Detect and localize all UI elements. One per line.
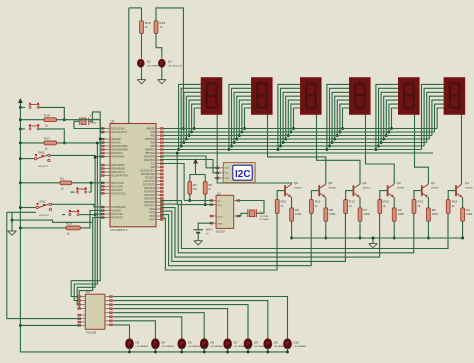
svg-text:Q4: Q4 — [362, 181, 366, 185]
junction emitter rail — [324, 237, 327, 240]
svg-text:SW2: SW2 — [38, 151, 45, 155]
wire LED cathode to rail — [247, 348, 249, 352]
wire button G left stub — [71, 191, 75, 193]
junction LED on rail — [180, 350, 183, 353]
wire bus line 1 — [160, 128, 437, 130]
svg-text:SCL: SCL — [151, 164, 156, 166]
wire DISP3 common to Q4 collector — [317, 115, 361, 185]
wire SCL net to U2 — [184, 200, 213, 202]
svg-text:100R: 100R — [329, 212, 335, 216]
wire U1 to base resistor — [160, 214, 311, 266]
svg-text:R20: R20 — [66, 222, 72, 226]
svg-text:R19: R19 — [159, 21, 165, 25]
LED D9 — [264, 339, 287, 349]
svg-text:MCLR/VPP/THV: MCLR/VPP/THV — [111, 176, 128, 178]
svg-text:100R: 100R — [466, 212, 472, 216]
wire SW2 output — [50, 155, 95, 157]
resistor R6 — [392, 208, 404, 222]
svg-text:RA4/T0CKI: RA4/T0CKI — [111, 152, 123, 155]
svg-text:SW-SPDT: SW-SPDT — [38, 166, 49, 168]
wire U1 to base resistor — [160, 208, 379, 258]
wire R6 to rail — [393, 221, 395, 238]
junction R1 net — [90, 181, 93, 184]
wire R9 to rail — [291, 221, 293, 238]
wire segment bus to DISP2 — [239, 100, 251, 135]
junction bus tap DISP4 — [338, 131, 341, 134]
wire X1 to OSC1 — [74, 121, 104, 128]
resistor R9 — [290, 208, 302, 222]
wire segment bus to DISP6 — [422, 84, 444, 149]
LED D2 — [158, 59, 182, 67]
wire SCL net to U1 — [160, 164, 184, 201]
wire Q6 base — [277, 191, 284, 200]
wire segment bus to DISP5 — [386, 100, 398, 135]
junction bus tap DISP4 — [333, 138, 336, 141]
wire segment bus to DISP4 — [340, 104, 349, 132]
wire Q1 base — [448, 191, 455, 200]
junction bus tap DISP1 — [193, 127, 196, 130]
wire R3 bottom — [189, 194, 191, 200]
wire rail to button A — [20, 106, 25, 108]
wire bus line 8 — [160, 152, 433, 154]
wire U1 to U3 select — [71, 120, 100, 297]
wire segment bus to DISP3 — [288, 100, 300, 135]
wire SW1 output to U1 — [52, 204, 105, 207]
wire segment bus to DISP6 — [432, 100, 444, 135]
svg-text:RB0/INT: RB0/INT — [146, 129, 155, 131]
wire U1 to base resistor — [160, 204, 413, 253]
svg-text:D5: D5 — [188, 340, 192, 344]
ground D1 — [137, 80, 146, 84]
svg-text:PSP4: PSP4 — [149, 209, 156, 211]
wire segment bus to DISP5 — [389, 104, 398, 132]
svg-text:RD0/PSP0: RD0/PSP0 — [144, 157, 156, 159]
wire R2 bottom — [204, 194, 206, 204]
wire segment bus to DISP3 — [294, 108, 301, 129]
svg-text:PSP6: PSP6 — [149, 216, 156, 218]
resistor R4 — [461, 208, 473, 222]
svg-text:RC6/TX/CK: RC6/TX/CK — [143, 181, 155, 183]
svg-text:2N3906: 2N3906 — [465, 187, 473, 189]
svg-text:U2: U2 — [217, 191, 221, 195]
push button A — [29, 102, 40, 108]
LED D10 — [284, 339, 307, 349]
junction bus tap DISP3 — [287, 134, 290, 137]
svg-text:D2: D2 — [168, 60, 172, 64]
LED D3 — [126, 339, 149, 349]
svg-text:R12: R12 — [349, 200, 355, 204]
resistor R19 — [154, 21, 165, 34]
svg-text:R13: R13 — [383, 200, 389, 204]
wire U3 output to LED D3 — [113, 325, 129, 339]
wire U3 output to LED D7 — [113, 309, 228, 339]
wire LED cathode to rail — [267, 348, 269, 352]
svg-text:R15: R15 — [452, 200, 458, 204]
wire DISP5 common to Q2 collector — [415, 115, 429, 185]
wire U3 output to LED D6 — [113, 313, 204, 339]
svg-text:R11: R11 — [315, 200, 321, 204]
svg-text:Q6: Q6 — [294, 181, 298, 185]
wire segment bus to DISP2 — [245, 108, 252, 129]
wire segment bus to DISP5 — [379, 88, 399, 146]
U3 left pins — [78, 296, 86, 327]
wire button H left stub — [62, 214, 65, 216]
junction bus tap DISP5 — [382, 138, 385, 141]
svg-text:R14: R14 — [417, 200, 423, 204]
wire segment bus to DISP6 — [429, 96, 444, 139]
svg-text:100R: 100R — [295, 212, 301, 216]
ground D2 — [158, 80, 167, 84]
wire LED cathode to rail — [287, 348, 289, 352]
svg-text:2N3906: 2N3906 — [431, 187, 439, 189]
junction emitter rail — [359, 237, 362, 240]
wire segment bus to DISP3 — [286, 96, 301, 139]
junction bus tap DISP1 — [188, 134, 191, 137]
wire rail to ground — [372, 238, 374, 244]
wire segment bus to DISP1 — [192, 104, 201, 132]
wire R18 to D1 — [141, 34, 143, 59]
junction bus tap DISP5 — [390, 127, 393, 130]
resistor R8 — [324, 208, 336, 222]
wire crystal to U2 X2 — [237, 201, 264, 214]
microcontroller U1 PIC16F877A body — [110, 120, 156, 233]
svg-text:R10: R10 — [281, 200, 287, 204]
junction LED on rail — [266, 350, 269, 353]
svg-text:Q5: Q5 — [328, 181, 332, 185]
junction bus tap DISP5 — [377, 145, 380, 148]
junction bus tap DISP1 — [180, 145, 183, 148]
wire rail to SW1 — [20, 207, 36, 209]
svg-text:RB3/PGM: RB3/PGM — [145, 139, 155, 141]
wire R7 to rail — [359, 221, 361, 238]
wire segment bus to DISP3 — [281, 88, 301, 146]
junction rail row B — [19, 118, 22, 121]
wire segment bus to DISP6 — [437, 108, 444, 129]
svg-text:LED-AMBER: LED-AMBER — [188, 345, 201, 348]
svg-text:D3: D3 — [136, 340, 140, 344]
wire rail to R1 — [20, 182, 60, 184]
wire vertical rail to U1 top — [128, 8, 130, 124]
svg-text:R7: R7 — [363, 208, 367, 212]
crystal X1 — [79, 114, 100, 126]
push button C — [29, 124, 40, 130]
svg-text:RA3/AN3/VREF+: RA3/AN3/VREF+ — [111, 149, 129, 152]
push button H — [69, 210, 80, 216]
resistor R1 — [60, 176, 72, 190]
wire rail to button C — [20, 128, 25, 130]
LED D1 — [137, 59, 160, 67]
svg-text:RA1/AN1: RA1/AN1 — [111, 142, 121, 145]
svg-text:2N3906: 2N3906 — [328, 187, 336, 189]
svg-text:LED-AMBER: LED-AMBER — [161, 345, 174, 348]
wire segment bus to DISP1 — [181, 88, 201, 146]
wire segment bus to DISP1 — [179, 84, 201, 149]
junction bus tap DISP2 — [240, 131, 243, 134]
svg-text:RD3/PSP3: RD3/PSP3 — [144, 192, 156, 194]
wire U2 X1 to crystal — [237, 213, 248, 216]
junction bus tap DISP2 — [238, 134, 241, 137]
svg-text:R3: R3 — [193, 183, 197, 187]
resistor R15 — [446, 200, 457, 214]
wire U1 to base resistor — [160, 201, 448, 249]
svg-text:RC7/RX/DT: RC7/RX/DT — [111, 218, 124, 220]
wire U1 SDA to I2C — [160, 160, 219, 173]
wire U3 output to LED D8 — [113, 305, 248, 339]
svg-text:R1: R1 — [60, 176, 64, 180]
svg-text:RC7/RX/DT: RC7/RX/DT — [143, 185, 156, 187]
junction bus tap DISP1 — [185, 138, 188, 141]
svg-text:Q2: Q2 — [431, 181, 435, 185]
svg-text:SDA: SDA — [217, 204, 222, 207]
svg-text:RC3/SCK/SCL: RC3/SCK/SCL — [111, 193, 127, 195]
junction LED on rail — [286, 350, 289, 353]
junction rail SW1 — [19, 206, 22, 209]
wire I2C trigger stub — [215, 177, 220, 179]
junction bus tap DISP3 — [276, 148, 279, 151]
svg-text:RC2/CCP1: RC2/CCP1 — [111, 190, 123, 192]
svg-text:D7: D7 — [234, 340, 238, 344]
svg-text:RE1/AN6/WR: RE1/AN6/WR — [111, 168, 125, 171]
svg-text:RD2/PSP2: RD2/PSP2 — [144, 188, 156, 190]
svg-text:PSP7: PSP7 — [149, 220, 156, 222]
svg-text:D9: D9 — [274, 340, 278, 344]
wire to R3 top — [189, 175, 191, 182]
wire DISP4 common to Q3 collector — [366, 115, 395, 185]
wire segment bus to DISP2 — [237, 96, 252, 139]
wire segment bus to DISP6 — [435, 104, 444, 132]
svg-text:RC6/TX/CK: RC6/TX/CK — [111, 214, 123, 216]
junction bus tap DISP1 — [182, 141, 185, 144]
svg-text:RE0/AN5/RD: RE0/AN5/RD — [111, 164, 125, 167]
svg-text:D8: D8 — [254, 340, 258, 344]
wire R17 to U1 — [57, 142, 98, 144]
junction ground rail — [11, 219, 14, 222]
svg-text:Q1: Q1 — [465, 181, 469, 185]
battery BAT1 — [193, 228, 213, 236]
junction R19 net on bus — [182, 127, 185, 130]
IC U3 74LS138 body — [85, 290, 105, 334]
wire R19 to D2 — [156, 34, 162, 59]
junction U1 pin RA1 — [96, 141, 99, 144]
push button G — [76, 187, 87, 193]
7-segment display DISP1 — [201, 78, 222, 115]
wire bus line 2 — [160, 131, 434, 133]
svg-text:CRYSTAL: CRYSTAL — [260, 215, 270, 218]
svg-text:RB2: RB2 — [151, 136, 156, 138]
wire pullup top rail — [190, 174, 205, 176]
wire button G to branch — [89, 191, 92, 193]
wire button A output — [39, 107, 65, 119]
wire LED cathode to rail — [154, 348, 156, 352]
resistor R11 — [310, 200, 321, 214]
junction SW2 net — [94, 156, 97, 159]
junction bus tap DISP3 — [282, 141, 285, 144]
LED D5 — [178, 339, 201, 349]
svg-text:PSP5: PSP5 — [149, 213, 156, 215]
ground emitter rail — [369, 244, 378, 248]
wire rail to R20 — [20, 227, 66, 229]
wire bottom ground rail — [20, 351, 287, 353]
junction button C to R17 net — [63, 141, 66, 144]
wire Q3 emitter — [393, 198, 395, 208]
wire R19 top to bus — [156, 8, 183, 129]
wire U3 output to LED D4 — [113, 321, 155, 339]
wire DISP1 common to Q6 collector — [217, 115, 291, 185]
junction R2 SDA net — [204, 203, 207, 206]
svg-text:OSC2/CLKOUT: OSC2/CLKOUT — [111, 132, 128, 134]
junction rail to U3 — [19, 324, 22, 327]
wire segment bus to DISP6 — [427, 92, 444, 142]
junction bus tap DISP5 — [380, 141, 383, 144]
svg-text:74LS138: 74LS138 — [86, 331, 97, 335]
wire segment bus to DISP2 — [234, 92, 251, 142]
7-segment display DISP6 — [444, 78, 465, 115]
I2C debugger pins — [216, 167, 223, 179]
resistor R7 — [358, 208, 370, 222]
svg-text:32.768kHz: 32.768kHz — [260, 219, 270, 221]
junction bus tap DISP1 — [177, 148, 180, 151]
wire SW1 lower contact to ground rail — [12, 211, 36, 213]
wire segment bus to DISP4 — [332, 92, 349, 142]
svg-text:RB7/PGD: RB7/PGD — [145, 153, 155, 155]
junction rail row C — [19, 127, 22, 130]
wire U1 to base resistor — [160, 214, 277, 271]
svg-text:R9: R9 — [295, 208, 299, 212]
wire DISP6 common to Q1 collector — [461, 115, 463, 185]
junction rail R1 row — [19, 181, 22, 184]
wire stub to U1 pin — [95, 213, 104, 215]
wire Q4 emitter — [359, 198, 361, 208]
svg-text:RA2/AN2/VREF-: RA2/AN2/VREF- — [111, 145, 128, 148]
junction emitter rail — [393, 237, 396, 240]
junction SDA tap on bus line 8 — [176, 152, 179, 155]
wire button H output — [80, 214, 96, 216]
junction button A to R16 net — [63, 118, 66, 121]
wire R5 to rail — [427, 221, 429, 238]
junction bus tap DISP5 — [374, 148, 377, 151]
wire stub to far-left rail — [7, 211, 12, 213]
svg-text:DS1307: DS1307 — [216, 230, 226, 234]
transistor Q1 2N3906 — [456, 181, 473, 197]
wire segment bus to DISP4 — [335, 96, 350, 139]
wire LED cathode to rail — [129, 348, 131, 352]
wire segment bus to DISP1 — [194, 108, 201, 129]
svg-text:RD4/PSP4: RD4/PSP4 — [144, 195, 156, 197]
wire Q1 emitter — [462, 198, 464, 208]
wire bus line 7 — [160, 149, 421, 151]
7-segment display DISP5 — [398, 78, 419, 115]
wire U1 to base resistor — [160, 211, 345, 261]
LED D7 — [224, 339, 247, 349]
junction bus tap DISP2 — [233, 141, 236, 144]
junction bus tap DISP2 — [230, 145, 233, 148]
7-segment display DISP2 — [251, 78, 272, 115]
svg-text:LED-AMBER: LED-AMBER — [294, 345, 307, 348]
junction bus tap DISP2 — [243, 127, 246, 130]
svg-text:RB6/PGC: RB6/PGC — [145, 150, 155, 152]
wire U3 output to LED D9 — [113, 301, 268, 339]
svg-text:R2: R2 — [208, 183, 212, 187]
svg-text:RC1/T1OSI: RC1/T1OSI — [111, 186, 123, 188]
resistor R14 — [412, 200, 423, 214]
wire segment bus to DISP5 — [376, 84, 398, 149]
svg-text:RB5: RB5 — [151, 146, 156, 148]
svg-text:RC5/SDO: RC5/SDO — [145, 178, 155, 180]
junction bus tap DISP1 — [190, 131, 193, 134]
resistor R5 — [427, 208, 439, 222]
wire left power rail — [19, 103, 21, 352]
svg-text:RC4/SDI/SDA: RC4/SDI/SDA — [141, 173, 156, 176]
resistor R10 — [275, 200, 286, 214]
wire rail to R16 — [20, 119, 44, 121]
svg-text:R17: R17 — [44, 137, 50, 141]
wire stub RA1 — [97, 142, 104, 144]
junction bus tap DISP4 — [325, 148, 328, 151]
wire bus line 5 — [160, 142, 426, 144]
junction rail R20 — [19, 226, 22, 229]
wire R1 to U1 — [72, 182, 105, 184]
svg-text:2N3906: 2N3906 — [362, 187, 370, 189]
wire U1 SCL to I2C — [160, 156, 219, 168]
junction bus tap DISP3 — [289, 131, 292, 134]
junction bus tap DISP3 — [279, 145, 282, 148]
junction LED on rail — [226, 350, 229, 353]
svg-text:LED-GREEN: LED-GREEN — [147, 66, 160, 68]
wire U1 to U3 select — [74, 143, 97, 301]
U2 pins — [210, 200, 240, 224]
wire ground rail down — [11, 212, 13, 231]
wire rail to U3 pin 8 — [20, 324, 80, 326]
transistor Q4 2N3906 — [353, 181, 370, 197]
junction R3 SCL net — [188, 199, 191, 202]
svg-text:LED-YELLOW: LED-YELLOW — [168, 66, 183, 68]
svg-text:D4: D4 — [161, 340, 165, 344]
svg-text:RC0/T1OSO: RC0/T1OSO — [111, 183, 124, 185]
wire X1 to OSC2 — [89, 112, 105, 132]
resistor R3 — [188, 182, 198, 195]
svg-text:10k: 10k — [193, 187, 198, 191]
svg-text:RB4: RB4 — [151, 143, 156, 145]
svg-text:RE2/AN7/CS: RE2/AN7/CS — [111, 171, 125, 174]
junction bus tap DISP5 — [387, 131, 390, 134]
transistor Q6 2N3906 — [285, 181, 302, 197]
wire battery to ground — [197, 234, 199, 241]
U3 right pins — [105, 296, 113, 326]
svg-text:100R: 100R — [432, 212, 438, 216]
wire Q3 base — [380, 191, 387, 200]
wire U1 to U3 select — [77, 157, 95, 304]
wire LED cathode to rail — [181, 348, 183, 352]
7-segment display DISP4 — [349, 78, 370, 115]
wire Q2 base — [414, 191, 421, 200]
wire U3 output to LED D5 — [113, 317, 182, 339]
svg-text:LED-AMBER: LED-AMBER — [136, 345, 149, 348]
7-segment display DISP3 — [300, 78, 321, 115]
junction bus tap DISP4 — [341, 127, 344, 130]
junction rail SW2 — [19, 157, 22, 160]
resistor R20 — [66, 222, 80, 236]
LED D4 — [151, 339, 174, 349]
svg-text:R4: R4 — [466, 208, 470, 212]
wire Q5 base — [311, 191, 318, 200]
svg-text:LED-AMBER: LED-AMBER — [210, 345, 223, 348]
switch SW2 SW-SPDT — [35, 151, 51, 169]
wire segment bus to DISP4 — [343, 108, 350, 129]
wire segment bus to DISP3 — [291, 104, 300, 132]
transistor Q5 2N3906 — [319, 181, 336, 197]
wire segment bus to DISP1 — [186, 96, 201, 139]
junction button H net — [94, 213, 97, 216]
